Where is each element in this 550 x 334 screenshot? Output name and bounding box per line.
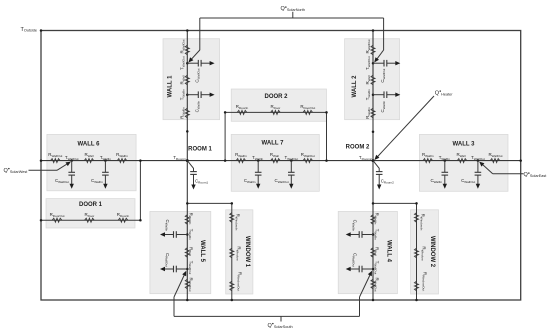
wire WALL1-ROOM1-WALL5 vertical	[186, 31, 188, 301]
junction window2 wire on bottom border	[415, 299, 418, 302]
svg-text:Q●SolarEast: Q●SolarEast	[524, 171, 548, 178]
junction wall5 wire on bottom border	[186, 299, 189, 302]
resistor R_WallIn (WALL 1)	[185, 108, 189, 118]
junction wall4 wire on bottom border	[372, 299, 375, 302]
svg-text:ROOM 1: ROOM 1	[188, 146, 212, 152]
node T_WallOut (WALL 1)	[186, 62, 189, 64]
capacitor C_Room2	[373, 161, 383, 190]
resistor R_WallIn (WALL 7)	[236, 159, 246, 163]
svg-text:Q●SolarWest: Q●SolarWest	[4, 167, 29, 174]
wire Q_SolarEast arrow into WALL 3	[479, 162, 523, 174]
resistor R_Wall (WALL 6)	[84, 159, 94, 163]
resistor R_WallIn (WALL 5)	[185, 215, 189, 225]
node T_WallIn (WALL 4)	[372, 233, 375, 236]
resistor R_WallIn (WALL 3)	[423, 159, 433, 163]
resistor R_WallOut (WALL 5)	[185, 279, 189, 289]
block background WALL 3	[419, 134, 508, 191]
svg-text:WALL 5: WALL 5	[199, 240, 205, 263]
node T_WallOut (WALL 4)	[372, 268, 375, 271]
junction window1 jumper right	[231, 202, 234, 205]
svg-text:WALL 3: WALL 3	[453, 142, 476, 148]
wire Q_SolarNorth arrow into WALL 1	[190, 50, 200, 61]
junction window1 wire on bottom border	[231, 299, 234, 302]
wire DOOR 2 right riser	[326, 112, 328, 160]
capacitor C_WallIn (WALL 6)	[102, 161, 109, 189]
svg-text:WALL 1: WALL 1	[168, 75, 174, 98]
wire DOOR 2 horizontal	[225, 111, 326, 113]
junction window2 jumper right	[415, 202, 418, 205]
wire Q_SolarSouth arrow into WALL 5	[174, 273, 185, 297]
junction DOOR2 left on bus	[224, 159, 227, 162]
block background WALL 6	[47, 134, 136, 190]
capacitor C_WallIn (WALL 1)	[187, 91, 214, 98]
junction DOOR1-bus	[139, 159, 142, 162]
junction DOOR2 left top	[224, 111, 227, 114]
wire WALL2-ROOM2-WALL4 vertical	[372, 31, 374, 301]
resistor R_WallOut (WALL 1)	[185, 45, 189, 55]
node T_Room2	[372, 159, 375, 162]
node T_WallIn (WALL 2)	[372, 93, 375, 96]
outer envelope wire (T_Outside boundary)	[41, 31, 521, 301]
resistor R_WindowIn (WINDOW 1)	[230, 213, 234, 223]
junction on WALL2 wire	[372, 130, 375, 133]
block background WALL 4	[338, 211, 397, 293]
wire window 2 branch vertical	[416, 203, 418, 300]
junction DOOR2 right top	[325, 111, 328, 114]
wire window 2 top jumper	[373, 202, 417, 204]
resistor R_WallIn (WALL 6)	[117, 159, 127, 163]
resistor R_Window (WINDOW 1)	[230, 248, 234, 258]
block background WALL 5	[150, 211, 211, 293]
svg-text:Q●SolarNorth: Q●SolarNorth	[281, 5, 306, 12]
svg-text:WALL 7: WALL 7	[262, 141, 285, 147]
node T_Room1	[186, 159, 189, 162]
resistor R_Window (WINDOW 2)	[415, 248, 419, 258]
node T_WallOut (WALL 6)	[70, 159, 73, 162]
junction bus-right border	[519, 159, 522, 162]
resistor R_WallOut (WALL 7)	[303, 159, 313, 163]
node T_WallIn (WALL 5)	[186, 233, 189, 236]
resistor R_Wall (WALL 7)	[271, 159, 281, 163]
svg-text:TRoom2: TRoom2	[359, 155, 372, 161]
junction DOOR2 right on bus	[325, 159, 328, 162]
capacitor C_Room1	[187, 161, 197, 190]
junction DOOR1 wire right	[139, 219, 142, 222]
wire Q_SolarSouth distribution	[174, 297, 360, 322]
resistor R_WallIn (WALL 2)	[371, 108, 375, 118]
resistor R_Wall (WALL 4)	[371, 248, 375, 258]
capacitor C_WallOut (WALL 6)	[68, 161, 75, 189]
node T_WallIn (WALL 3)	[444, 159, 447, 162]
junction top-left corner	[40, 29, 43, 32]
resistor R_Door (DOOR 1)	[85, 218, 95, 222]
node T_WallIn (WALL 7)	[257, 159, 260, 162]
wire window 1 top jumper	[187, 202, 232, 204]
svg-text:WALL 6: WALL 6	[78, 142, 101, 148]
resistor R_Door (DOOR 2)	[271, 110, 281, 114]
resistor R_Wall (WALL 3)	[457, 159, 467, 163]
svg-text:DOOR 2: DOOR 2	[264, 94, 288, 100]
wire Q_SolarNorth distribution	[200, 12, 384, 50]
resistor R_WallIn (WALL 4)	[371, 215, 375, 225]
svg-text:Q●Heater: Q●Heater	[435, 89, 453, 96]
node T_WallIn (WALL 6)	[104, 159, 107, 162]
wire Q_Heater arrow into ROOM 2 node	[374, 96, 434, 160]
resistor R_DoorIn (DOOR 1)	[118, 218, 128, 222]
svg-text:CRoom1: CRoom1	[195, 179, 208, 185]
junction bus-left border	[40, 159, 43, 162]
capacitor C_WallIn (WALL 3)	[442, 161, 449, 189]
block background DOOR 1	[46, 199, 135, 228]
capacitor C_WallOut (WALL 7)	[288, 161, 295, 189]
resistor R_WindowOut (WINDOW 2)	[415, 281, 419, 291]
svg-text:TRoom1: TRoom1	[173, 155, 186, 161]
node T_WallOut (WALL 2)	[372, 62, 375, 64]
svg-text:Q●SolarSouth: Q●SolarSouth	[268, 322, 293, 329]
wire Q_SolarSouth arrow into WALL 4	[360, 273, 371, 297]
capacitor C_WallOut (WALL 2)	[373, 60, 400, 67]
wire DOOR 1 right riser	[139, 161, 141, 221]
wire DOOR 2 left riser	[224, 112, 226, 160]
wire window 1 branch vertical	[231, 203, 233, 300]
junction window2 jumper left	[372, 202, 375, 205]
block background WALL 1	[163, 39, 220, 120]
junction wall1 wire on top border	[186, 29, 189, 32]
junction window1 jumper left	[186, 202, 189, 205]
capacitor C_WallOut (WALL 1)	[187, 60, 214, 67]
svg-text:WINDOW 1: WINDOW 1	[244, 236, 250, 268]
block background WALL 7	[231, 134, 319, 191]
resistor R_DoorOut (DOOR 2)	[303, 110, 313, 114]
svg-text:CRoom2: CRoom2	[381, 179, 394, 185]
capacitor C_WallOut (WALL 5)	[160, 266, 187, 273]
node T_WallOut (WALL 5)	[186, 268, 189, 271]
capacitor C_WallIn (WALL 2)	[373, 91, 400, 98]
wire main horizontal bus (room air nodes)	[41, 160, 521, 162]
resistor R_WallOut (WALL 3)	[490, 159, 500, 163]
resistor R_DoorIn (DOOR 2)	[237, 110, 247, 114]
svg-text:WINDOW 2: WINDOW 2	[429, 236, 435, 268]
resistor R_Wall (WALL 1)	[185, 75, 189, 85]
junction DOOR1 wire left on border	[40, 219, 43, 222]
junction wall2 wire on top border	[372, 29, 375, 32]
svg-text:WALL 2: WALL 2	[352, 75, 358, 98]
block background WINDOW 1	[226, 210, 253, 294]
block background DOOR 2	[231, 89, 326, 121]
block background WINDOW 2	[411, 210, 439, 294]
block background WALL 2	[345, 39, 400, 120]
capacitor C_WallIn (WALL 7)	[255, 161, 262, 189]
node T_WallOut (WALL 7)	[290, 159, 293, 162]
resistor R_DoorOut (DOOR 1)	[52, 218, 62, 222]
wire DOOR 1 horizontal	[41, 219, 140, 221]
resistor R_Wall (WALL 5)	[185, 248, 189, 258]
resistor R_WallOut (WALL 2)	[371, 45, 375, 55]
resistor R_Wall (WALL 2)	[371, 75, 375, 85]
capacitor C_WallIn (WALL 5)	[160, 231, 187, 238]
svg-text:WALL 4: WALL 4	[385, 240, 391, 263]
resistor R_WallOut (WALL 4)	[371, 279, 375, 289]
node T_WallIn (WALL 1)	[186, 93, 189, 96]
resistor R_WindowIn (WINDOW 2)	[415, 213, 419, 223]
svg-text:TOutside: TOutside	[21, 27, 37, 33]
wire Q_SolarNorth arrow into WALL 2	[375, 50, 383, 61]
svg-text:ROOM 2: ROOM 2	[346, 145, 370, 151]
junction on WALL1 wire	[186, 130, 189, 133]
capacitor C_WallIn (WALL 4)	[346, 231, 373, 238]
wire Q_SolarWest arrow into WALL 6	[29, 162, 71, 171]
capacitor C_WallOut (WALL 4)	[346, 266, 373, 273]
svg-text:DOOR 1: DOOR 1	[79, 202, 103, 208]
resistor R_WindowOut (WINDOW 1)	[230, 281, 234, 291]
capacitor C_WallOut (WALL 3)	[475, 161, 482, 189]
node T_WallOut (WALL 3)	[477, 159, 480, 162]
resistor R_WallOut (WALL 6)	[51, 159, 61, 163]
